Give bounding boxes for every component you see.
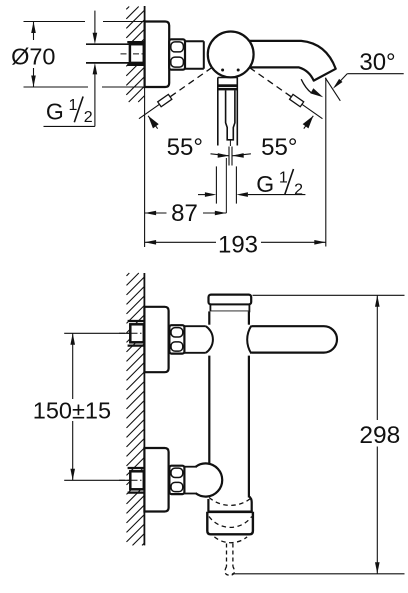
upper supply elbow in wall: [130, 324, 144, 342]
body cap ring: [210, 305, 249, 312]
dim Dia70 extension lines: [24, 21, 86, 23]
svg-text:193: 193: [218, 232, 258, 259]
phantom lever end line right: [302, 104, 322, 118]
upper union nut (side view): [169, 325, 184, 353]
water spread hidden (dashed arc): [214, 537, 247, 543]
lever collar sides: [217, 78, 219, 146]
svg-text:2: 2: [84, 109, 93, 126]
lower inlet dome joint: [196, 463, 223, 496]
lever centerline stub: [229, 140, 231, 146]
mousseur cap: [207, 512, 253, 535]
lever tip reference lines: [228, 147, 230, 166]
lever shaft: [226, 90, 235, 139]
wall (top view, hatched): [126, 7, 144, 103]
body tube fill: [208, 311, 251, 511]
wall (side view, hatched): [127, 273, 145, 545]
body tube left side: [208, 311, 210, 324]
30deg leader: [347, 73, 404, 75]
svg-text:298: 298: [359, 422, 400, 449]
lower escutcheon flange: [144, 448, 168, 512]
55deg arc arrow left outer: [148, 116, 159, 129]
svg-text:G: G: [256, 171, 274, 197]
body-to-outlet flare: [208, 496, 251, 512]
phantom lever dashes left: [170, 68, 212, 97]
dim 193 line: [145, 241, 216, 243]
dim G1/2 inlet underline: [44, 125, 95, 127]
svg-text:55°: 55°: [261, 134, 297, 161]
lever collar dark bands: [218, 84, 238, 87]
svg-text:1: 1: [69, 97, 78, 114]
svg-text:G: G: [46, 99, 64, 125]
wall face line (side view): [143, 273, 145, 545]
spray face hidden edge (dashed): [209, 498, 252, 506]
dim G1/2 outlet arrows: [198, 194, 205, 196]
svg-text:30°: 30°: [359, 49, 395, 76]
upper supply centerline: [119, 332, 149, 334]
dim G1/2 inlet leader: [94, 11, 96, 33]
wall face line (top view): [144, 6, 146, 87]
outlet centerline: [225, 158, 227, 213]
svg-text:55°: 55°: [167, 134, 203, 161]
dim 150 line: [72, 333, 74, 399]
svg-text:Ø70: Ø70: [11, 44, 55, 70]
inlet ball joint bulge: [206, 326, 213, 353]
escutcheon flange Dia70 (top view): [145, 22, 170, 88]
marking dots on body: [221, 69, 224, 72]
supply centerline (top view): [121, 53, 149, 55]
supply elbow in wall (top view): [130, 44, 144, 63]
water stream (dashed): [226, 544, 228, 567]
spout tip extension line: [325, 78, 327, 247]
handle lever arm (side view): [251, 326, 337, 352]
flow curved arrow: [301, 79, 311, 93]
svg-text:150±15: 150±15: [33, 398, 111, 424]
connector cylinder (top view): [185, 41, 204, 68]
supply pipe in wall (top view): [86, 44, 130, 63]
outlet extension lines: [215, 166, 217, 203]
lower supply centerline: [119, 479, 149, 481]
union nut (top view): [169, 39, 185, 69]
body cap: [209, 295, 252, 305]
aerator hidden (dashed arc): [209, 517, 252, 528]
dim 87 line: [145, 212, 167, 214]
svg-text:2: 2: [294, 182, 303, 199]
lower inlet pipe: [184, 466, 197, 468]
handle boss bulge right: [247, 326, 251, 354]
water drop (dashed): [225, 567, 234, 576]
55deg arc arrows bottom: [218, 153, 230, 158]
55deg arc arrow right outer: [303, 116, 314, 129]
svg-text:87: 87: [171, 200, 198, 227]
dim 298 extension lines: [253, 294, 405, 296]
lower supply elbow in wall: [130, 471, 144, 489]
upper inlet pipe: [184, 325, 205, 327]
phantom lever knob left: [158, 94, 172, 106]
svg-text:1: 1: [279, 170, 288, 187]
mousseur joint line: [208, 510, 253, 513]
phantom lever dashes right: [250, 68, 292, 97]
spout (top view): [245, 41, 336, 81]
lower union nut (side view): [169, 466, 184, 494]
30deg stream line: [325, 78, 340, 101]
body tube right side: [248, 311, 250, 324]
dim Dia70 line+arrows: [33, 22, 35, 41]
upper escutcheon flange: [144, 307, 168, 372]
dim 298 line: [376, 295, 378, 420]
phantom lever end line left: [139, 104, 159, 118]
wall face extension line down to dims: [144, 87, 146, 247]
lever collar top edge: [218, 77, 238, 79]
dim 150 extension lines: [64, 332, 130, 334]
body circle (top view): [208, 32, 254, 78]
phantom lever knob right: [290, 94, 304, 106]
